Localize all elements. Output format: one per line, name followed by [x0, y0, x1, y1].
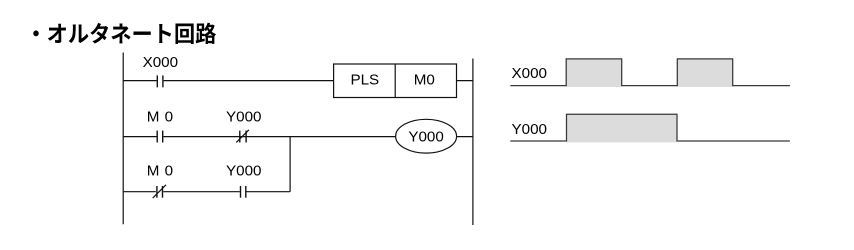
svg-text:X000: X000 — [512, 65, 547, 82]
wire rung2 mid — [163, 136, 395, 138]
box divider — [394, 64, 396, 98]
contact X000 (NO) — [157, 75, 163, 87]
svg-text:M0: M0 — [147, 163, 173, 180]
svg-text:Y000: Y000 — [512, 121, 547, 138]
svg-text:M0: M0 — [147, 108, 173, 125]
Y000 waveform line — [510, 114, 790, 141]
instruction box PLS M0 — [334, 64, 457, 98]
X000 waveform line — [510, 59, 790, 86]
Y000 pulse fill — [567, 114, 678, 142]
right power rail — [472, 59, 474, 226]
ladder labels — [143, 54, 444, 180]
left power rail — [122, 53, 124, 225]
wire rung1 mid — [164, 80, 334, 82]
contact M0 (NO) — [157, 131, 163, 143]
ladder diagram — [123, 53, 473, 226]
svg-text:PLS: PLS — [350, 71, 379, 88]
output coil Y000 — [396, 119, 457, 153]
svg-text:X000: X000 — [143, 54, 178, 71]
svg-text:Y000: Y000 — [226, 108, 261, 125]
title オルタネート回路 (alternate circuit) — [33, 23, 216, 44]
svg-text:Y000: Y000 — [408, 128, 443, 145]
wire coil to rail — [457, 136, 473, 138]
contact Y000 (NC) — [236, 130, 249, 143]
wire rung3 mid — [163, 191, 240, 193]
wire rung3 right — [247, 191, 291, 193]
contact Y000 (NO) — [241, 186, 246, 198]
svg-text:Y000: Y000 — [226, 163, 261, 180]
svg-text:M0: M0 — [414, 71, 435, 88]
contact M0 (NC) — [153, 185, 166, 198]
wire rung1 right — [457, 80, 473, 82]
branch wire rung3 to rung2 — [289, 136, 291, 192]
wire rung2 left — [123, 136, 156, 138]
X000 pulse fill 1 — [566, 59, 622, 87]
wire rung1 left — [123, 80, 156, 82]
X000 pulse fill 2 — [677, 59, 732, 87]
wire rung3 left — [123, 191, 156, 193]
